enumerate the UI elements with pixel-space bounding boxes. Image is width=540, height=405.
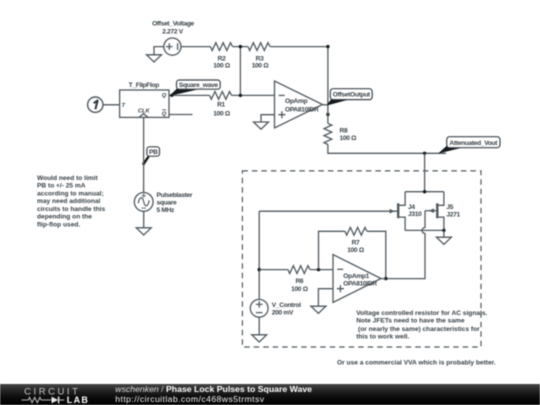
svg-text:wschenken / Phase Lock Pulses: wschenken / Phase Lock Pulses to Square … xyxy=(115,384,312,394)
wire: source right to R2 xyxy=(181,46,211,48)
ground (Offset_Voltage) xyxy=(147,55,162,62)
svg-text:circuits to handle this: circuits to handle this xyxy=(37,206,105,213)
label J4 / J310 xyxy=(408,204,422,218)
node 1 xyxy=(88,97,103,112)
svg-text:PB: PB xyxy=(149,149,158,156)
label R3 xyxy=(252,56,270,70)
node: output / feedback junction xyxy=(384,277,387,280)
svg-text:Q: Q xyxy=(162,93,167,99)
flag PB xyxy=(142,147,159,165)
svg-text:T_FlipFlop: T_FlipFlop xyxy=(129,82,160,89)
svg-text:PB to +/- 25 mA: PB to +/- 25 mA xyxy=(37,183,86,190)
node: R1/R2 junction xyxy=(239,94,242,97)
resistor R1 xyxy=(210,92,232,100)
svg-text:flip-flop used.: flip-flop used. xyxy=(37,221,80,228)
JFET J5 (J271) xyxy=(425,192,444,231)
flag Square_wave xyxy=(169,80,220,96)
wire: R7 right leg down to output xyxy=(367,231,386,278)
svg-text:OpAmp1: OpAmp1 xyxy=(343,273,369,280)
wire: output node down to R8 xyxy=(327,105,329,124)
svg-text:http://circuitlab.com/c468ws5t: http://circuitlab.com/c468ws5trmtsv xyxy=(115,394,264,404)
note text (inside dashed box) xyxy=(356,310,487,341)
resistor R2 xyxy=(211,43,233,51)
svg-text:square: square xyxy=(157,199,177,206)
label R8 xyxy=(340,128,358,143)
resistor R3 xyxy=(248,43,270,51)
node: junction R2/R3 xyxy=(239,45,242,48)
svg-text:100 Ω: 100 Ω xyxy=(347,247,365,254)
label R2 xyxy=(213,56,231,70)
svg-text:J310: J310 xyxy=(408,211,422,218)
svg-text:R6: R6 xyxy=(295,278,303,285)
svg-text:CLK: CLK xyxy=(138,108,151,114)
wire: node 1 to flip-flop xyxy=(103,104,120,106)
footer bar xyxy=(0,384,540,405)
ground (op-amp U1 +input) xyxy=(254,115,275,130)
wire: R3 to feedback corner, down to op-amp output xyxy=(270,47,328,105)
svg-text:Attenuated_Vout: Attenuated_Vout xyxy=(449,140,498,147)
svg-text:Would need to limit: Would need to limit xyxy=(37,175,98,182)
ground (JFET sources) xyxy=(436,230,451,244)
node: feedback corner xyxy=(326,45,329,48)
svg-text:100 Ω: 100 Ω xyxy=(213,63,231,70)
svg-text:Offset_Voltage: Offset_Voltage xyxy=(152,21,194,28)
label Pulseblaster xyxy=(157,192,193,214)
ground (Pulseblaster) xyxy=(136,211,151,235)
node: flag attach at Q xyxy=(170,94,173,97)
svg-text:100 Ω: 100 Ω xyxy=(291,286,309,293)
dashed annotation box xyxy=(242,171,481,347)
node: source rail / ground junction xyxy=(442,229,445,232)
wire: V_Control node column xyxy=(258,211,260,299)
svg-text:OpAmp: OpAmp xyxy=(285,98,308,105)
wire: node to R6 xyxy=(259,269,288,271)
ground (op-amp U2 +input) xyxy=(311,289,333,314)
wire: R6 to op-amp inverting input xyxy=(310,269,333,271)
node: Attenuated_Vout tap xyxy=(423,152,426,155)
svg-text:R3: R3 xyxy=(256,56,264,63)
svg-text:R7: R7 xyxy=(352,239,360,246)
flag OffsetOutput xyxy=(326,89,372,106)
wire: JFET drain rail xyxy=(405,191,444,193)
svg-text:V_Control: V_Control xyxy=(272,302,301,309)
wire: JFET source rail xyxy=(405,229,444,231)
op-amp U2 (OpAmp1) xyxy=(333,255,386,303)
svg-text:100 Ω: 100 Ω xyxy=(213,110,231,117)
label R7 xyxy=(347,239,365,254)
flag Attenuated_Vout xyxy=(438,137,500,154)
svg-text:this to work well.: this to work well. xyxy=(356,334,409,341)
label R6 xyxy=(291,278,309,293)
T flip-flop xyxy=(120,90,169,117)
voltage source V_Control xyxy=(250,299,268,317)
label R1 xyxy=(213,102,231,118)
label OpAmp / OPA810IDR xyxy=(285,98,319,113)
wire: flip-flop CLK down to Pulseblaster xyxy=(143,117,145,192)
wire: J5 gate down with hop to op-amp output xyxy=(386,211,425,279)
svg-text:R2: R2 xyxy=(218,56,226,63)
source Pulseblaster (sine symbol) xyxy=(134,193,153,212)
svg-text:(or nearly the same) character: (or nearly the same) characteristics for xyxy=(356,326,480,333)
svg-text:Voltage controlled resistor fo: Voltage controlled resistor for AC signa… xyxy=(356,310,487,317)
svg-text:LAB: LAB xyxy=(67,395,89,405)
voltage source Offset_Voltage xyxy=(164,38,181,55)
svg-text:Pulseblaster: Pulseblaster xyxy=(157,192,193,199)
wire: R2 to R3 xyxy=(233,46,248,48)
wire: Qbar stub xyxy=(169,114,193,116)
node: V_Control / R6 junction xyxy=(258,268,261,271)
node: drain rail junction xyxy=(423,190,426,193)
svg-text:100 Ω: 100 Ω xyxy=(252,63,270,70)
svg-text:OPA810IDR: OPA810IDR xyxy=(343,281,377,288)
svg-text:R1: R1 xyxy=(217,102,225,109)
node: output / R8 junction xyxy=(326,113,329,116)
label V_Control xyxy=(272,302,301,317)
svg-text:J271: J271 xyxy=(446,211,460,218)
wire: R8 bottom to Attenuated_Vout row xyxy=(328,145,446,154)
resistor R6 xyxy=(288,266,310,274)
svg-text:may need additional: may need additional xyxy=(37,198,101,205)
svg-text:J4: J4 xyxy=(408,204,415,211)
svg-text:depending on the: depending on the xyxy=(37,214,92,221)
label J5 / J271 xyxy=(446,204,460,218)
pin label Qbar xyxy=(162,110,167,118)
svg-text:according to manual;: according to manual; xyxy=(37,190,104,197)
svg-text:R8: R8 xyxy=(340,128,348,135)
svg-text:OPA810IDR: OPA810IDR xyxy=(285,106,319,113)
label OpAmp1 / OPA810IDR xyxy=(343,273,377,288)
resistor R8 xyxy=(324,124,332,145)
wire: R7 feedback left leg xyxy=(319,231,346,269)
svg-text:Q: Q xyxy=(162,112,167,118)
svg-text:2.272 V: 2.272 V xyxy=(162,29,184,36)
note text (left) xyxy=(37,175,105,229)
svg-text:Square_wave: Square_wave xyxy=(179,82,218,89)
svg-text:Note JFETs need to have the sa: Note JFETs need to have the same xyxy=(356,318,465,325)
wire: source left to ground xyxy=(154,47,164,55)
svg-text:J5: J5 xyxy=(446,204,453,211)
node: inverting input / R7 junction xyxy=(317,268,320,271)
wire: Q output row to op-amp inverting input xyxy=(169,94,275,96)
svg-text:100 Ω: 100 Ω xyxy=(340,135,358,142)
op-amp U1 (OpAmp) xyxy=(275,81,328,128)
JFET J4 (J310) xyxy=(259,192,405,231)
svg-text:OffsetOutput: OffsetOutput xyxy=(333,92,371,99)
svg-text:5 MHz: 5 MHz xyxy=(157,207,176,214)
svg-text:T: T xyxy=(122,103,126,109)
ground (V_Control) xyxy=(252,317,267,342)
wire: down into dashed box to JFET rail xyxy=(424,153,426,191)
label Offset_Voltage xyxy=(152,21,194,36)
svg-text:Or use a commercial VVA which: Or use a commercial VVA which is probabl… xyxy=(337,359,496,366)
wire: junction R2/R3 down to R1 node xyxy=(239,47,241,96)
svg-text:200 mV: 200 mV xyxy=(272,310,294,317)
CircuitLab logo xyxy=(22,386,90,405)
resistor R7 xyxy=(345,227,367,235)
